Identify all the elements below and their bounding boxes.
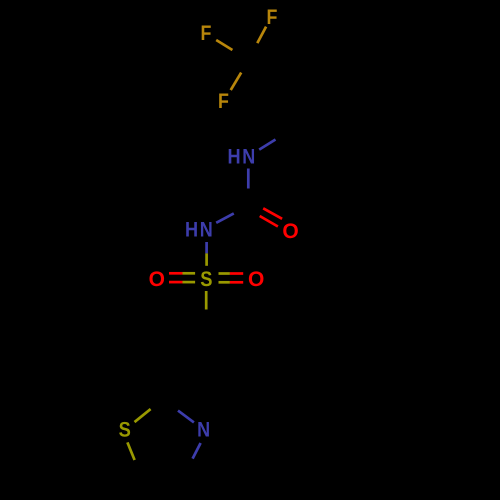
double bond C=O (urea) line 1 [263, 208, 282, 219]
svg-text:N: N [200, 218, 213, 241]
svg-text:F: F [267, 6, 278, 29]
bond N(left)-S lower half [205, 253, 208, 265]
bond N(left)-C(urea) [216, 213, 234, 222]
svg-text:H: H [185, 218, 198, 241]
svg-text:O: O [248, 268, 264, 291]
bond N(top)-ring C [259, 140, 275, 150]
S=O right line2 red half [230, 281, 243, 284]
svg-text:O: O [149, 268, 165, 291]
svg-text:O: O [282, 220, 298, 243]
S=O left line2 red half [169, 281, 183, 284]
svg-text:N: N [242, 146, 255, 169]
bond N(left)-S upper half [205, 242, 208, 253]
S=O left line1 olive half [183, 272, 196, 275]
svg-text:H: H [227, 146, 240, 169]
S=O right line1 red half [230, 272, 243, 275]
svg-text:F: F [201, 22, 212, 45]
bond N(top)-C(urea) [247, 169, 250, 189]
S=O right line1 olive half [219, 272, 230, 275]
bond S-CH2 [205, 291, 208, 310]
svg-text:S: S [200, 268, 212, 291]
svg-text:N: N [197, 419, 210, 442]
thiazoline N-C2 [178, 411, 194, 423]
svg-text:S: S [119, 419, 131, 442]
S=O left line2 olive half [183, 281, 196, 284]
double bond C=O (urea) line 2 [260, 216, 278, 227]
S=O left line1 red half [169, 272, 183, 275]
thiazoline S-C5 [127, 442, 134, 460]
thiazoline N-C4 [193, 443, 201, 459]
S=O right line2 olive half [219, 281, 230, 284]
bond C-F (bottom F of CF3) [231, 73, 242, 91]
thiazoline S-C2 [135, 409, 151, 422]
svg-text:F: F [218, 90, 229, 113]
bond C-F (top-right F of CF3) [257, 27, 266, 43]
bond C-F (left F of CF3) [216, 40, 232, 50]
